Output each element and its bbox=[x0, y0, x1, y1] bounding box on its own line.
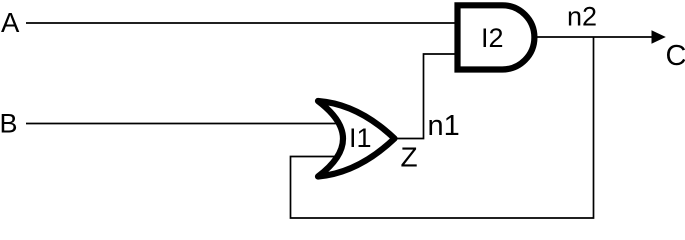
svg-text:n1: n1 bbox=[428, 110, 460, 142]
svg-text:A: A bbox=[1, 7, 20, 38]
svg-text:C: C bbox=[666, 40, 685, 72]
svg-text:I1: I1 bbox=[349, 123, 372, 153]
svg-text:B: B bbox=[0, 108, 18, 138]
svg-text:Z: Z bbox=[401, 142, 418, 173]
svg-text:n2: n2 bbox=[567, 2, 597, 32]
svg-text:I2: I2 bbox=[481, 23, 504, 53]
